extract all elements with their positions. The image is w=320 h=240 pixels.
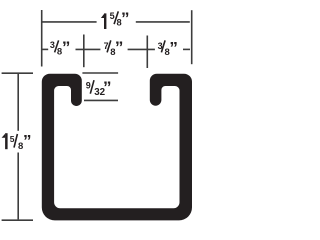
svg-text:3: 3 <box>158 41 163 51</box>
svg-text:”: ” <box>169 38 178 57</box>
svg-text:3: 3 <box>50 40 55 50</box>
svg-text:”: ” <box>115 38 124 57</box>
svg-text:”: ” <box>62 38 71 57</box>
svg-text:”: ” <box>103 78 112 97</box>
svg-text:”: ” <box>23 132 32 151</box>
svg-text:”: ” <box>121 9 130 28</box>
svg-text:5: 5 <box>10 134 15 144</box>
svg-text:9: 9 <box>86 81 91 91</box>
svg-text:5: 5 <box>110 11 115 21</box>
svg-text:7: 7 <box>104 41 109 51</box>
